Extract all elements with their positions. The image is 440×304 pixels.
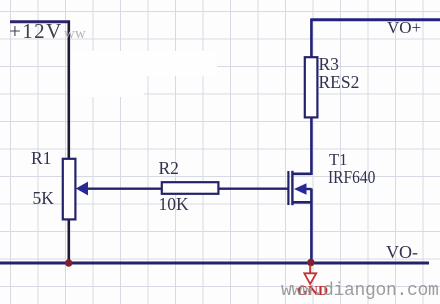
wire VO+ rail [311, 18, 440, 21]
wire +12V rail [10, 20, 70, 23]
wire left vertical from +12V to R1 [68, 21, 71, 161]
R1 wiper arrow [76, 182, 88, 196]
wire source of T1 to VO- [310, 189, 313, 264]
resistor R1 value 5K [33, 190, 54, 208]
wire R1 bottom to VO- rail [68, 218, 71, 264]
transistor T1 value IRF640 [328, 168, 375, 186]
wire R2 to gate of T1 [218, 187, 289, 189]
junction dot right [307, 259, 315, 267]
node VO+ label [387, 19, 421, 36]
resistor R1 designator [31, 150, 51, 168]
watermark www.diangon.com [281, 282, 439, 300]
junction dot left [65, 259, 72, 266]
transistor T1 gate bar [287, 171, 289, 205]
transistor T1 channel bar [291, 171, 293, 205]
node +12V label [9, 21, 63, 42]
resistor R2 value 10K [159, 196, 189, 214]
transistor T1 bulk stub [302, 188, 312, 190]
resistor R2 designator [159, 160, 179, 178]
resistor R3 value RES2 [319, 74, 360, 92]
wire VO- rail [0, 262, 429, 265]
transistor T1 bulk arrow [294, 183, 307, 195]
resistor R3 body [305, 57, 318, 117]
ground GND label [297, 285, 328, 299]
resistor R2 body [162, 182, 219, 194]
node VO- label [386, 243, 418, 261]
watermark fragment top left [64, 27, 86, 42]
transistor T1 drain stub [292, 173, 311, 176]
wire drain of T1 to VO+ [310, 19, 313, 176]
transistor T1 source stub [292, 201, 311, 204]
white patch upper middle [70, 51, 217, 76]
transistor T1 designator [329, 152, 347, 169]
resistor R1 body (potentiometer) [63, 159, 76, 220]
ground symbol [304, 265, 316, 284]
resistor R3 designator [319, 56, 339, 74]
wire R1 wiper to R2 [87, 187, 163, 189]
